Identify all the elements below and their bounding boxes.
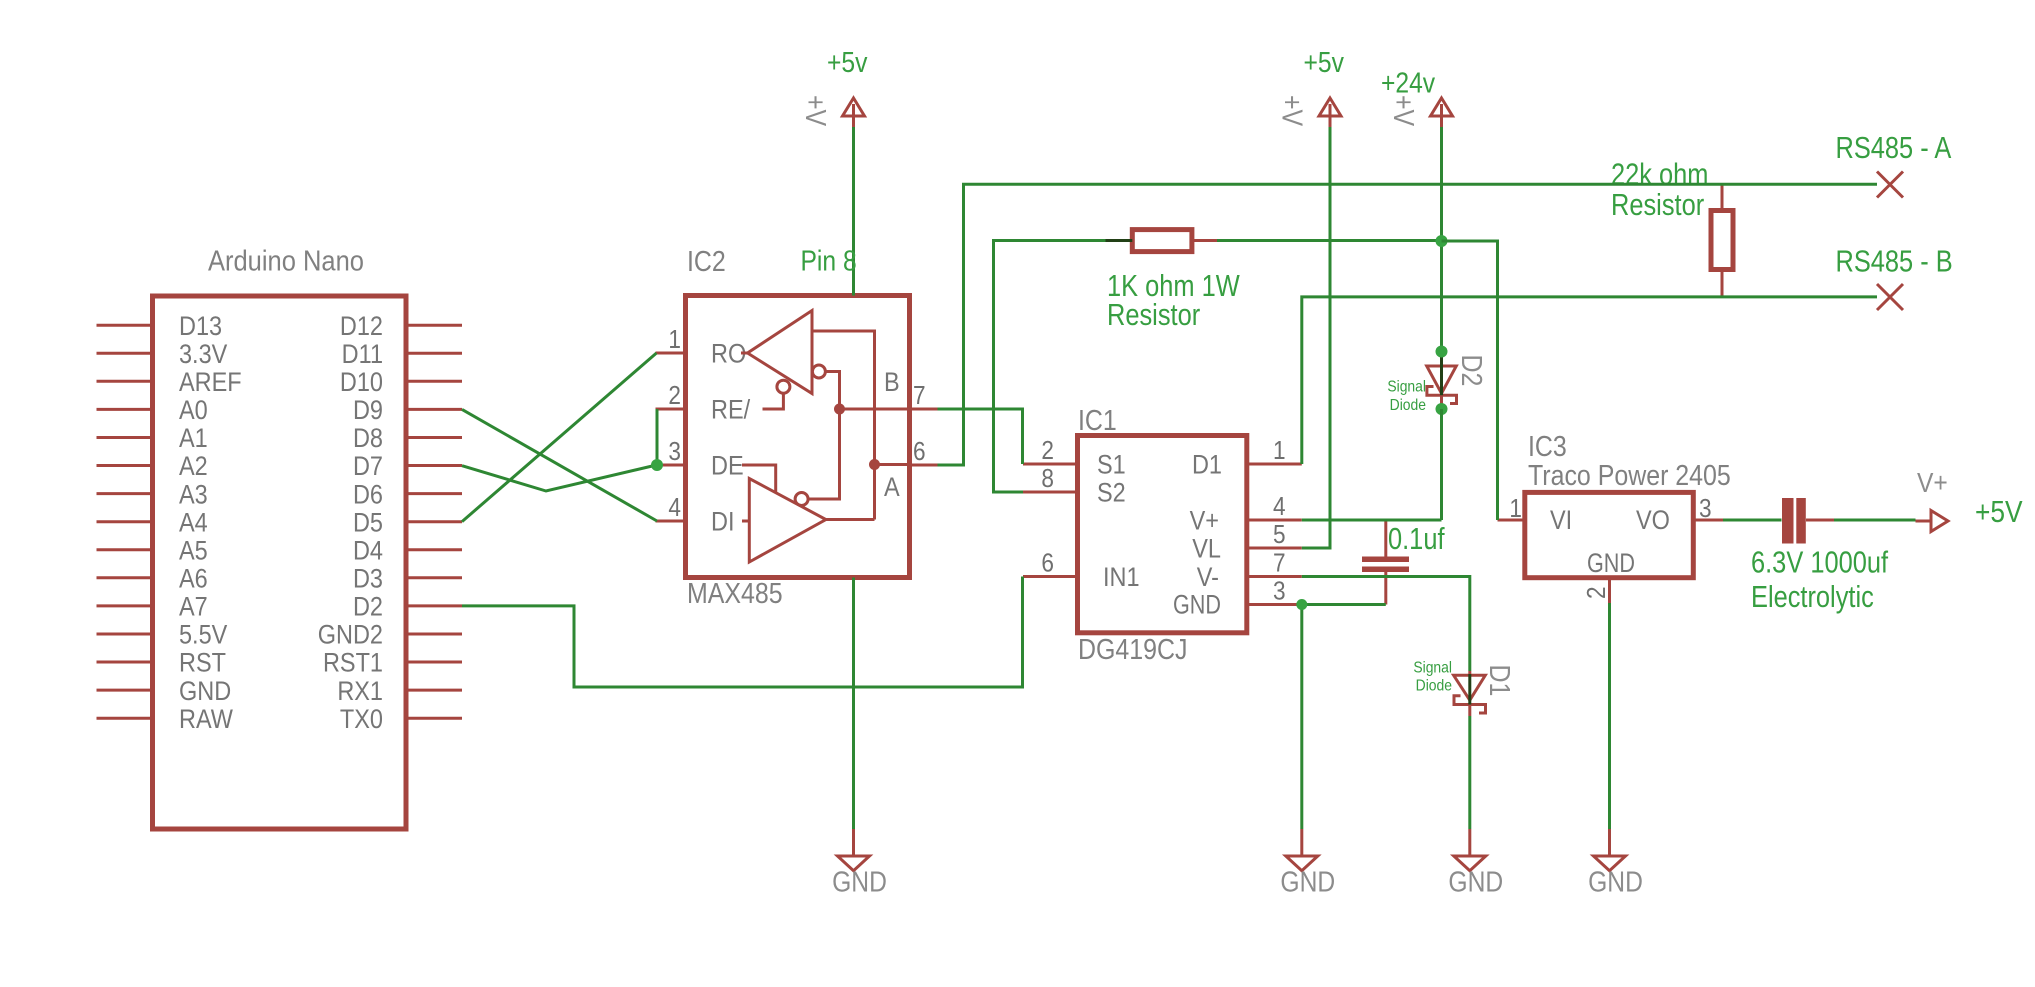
svg-text:DG419CJ: DG419CJ: [1078, 633, 1187, 665]
svg-text:GND: GND: [1280, 866, 1335, 898]
pin A5 (Arduino left): [97, 548, 153, 551]
svg-text:2: 2: [1041, 437, 1054, 466]
pin D13 (Arduino left): [97, 324, 153, 327]
svg-text:1: 1: [1509, 495, 1522, 524]
pin 6 A (IC2): [910, 464, 938, 467]
wire overlap through D2: [1440, 354, 1443, 395]
svg-text:7: 7: [913, 382, 926, 411]
svg-text:4: 4: [668, 494, 681, 523]
svg-text:RS485 - B: RS485 - B: [1836, 244, 1953, 279]
pin 6 (IC1 left): [1023, 575, 1078, 578]
wire +5v rail into IC2: [852, 127, 855, 296]
wire IC1 D1 pin to RS485-B net: [1302, 297, 1877, 464]
svg-text:D12: D12: [340, 311, 383, 341]
pin 1 RO (IC2): [656, 352, 686, 355]
capacitor 0.1uf: [1362, 557, 1409, 563]
svg-text:3.3V: 3.3V: [179, 340, 227, 370]
svg-text:D3: D3: [353, 564, 383, 594]
pin 5.5V (Arduino left): [97, 633, 153, 636]
bubble receiver enable right: [812, 365, 825, 378]
wire bubble to B-node drop: [808, 372, 839, 500]
wire +24v node to IC3 VI: [1442, 241, 1498, 520]
svg-text:D2: D2: [353, 592, 383, 622]
pin A3 (Arduino left): [97, 492, 153, 495]
svg-text:RO: RO: [711, 339, 746, 369]
wire A row inside: [875, 463, 910, 466]
ground symbol: [852, 829, 855, 856]
pin GND2 (Arduino right): [406, 633, 462, 636]
svg-text:1: 1: [668, 326, 681, 355]
svg-text:+V: +V: [1388, 95, 1420, 126]
pin 5 (IC1 right): [1247, 547, 1302, 550]
wire DE link to driver enable: [742, 465, 776, 493]
svg-text:AREF: AREF: [179, 368, 242, 398]
svg-text:GND: GND: [1448, 866, 1503, 898]
wire +24v rail upper: [1440, 127, 1443, 352]
wire D2 to IN1: [462, 577, 1023, 688]
svg-text:6: 6: [913, 438, 926, 467]
svg-text:A7: A7: [179, 592, 208, 622]
svg-text:D11: D11: [342, 340, 383, 370]
wire D9 to DI: [462, 409, 657, 521]
pin TX0 (Arduino right): [406, 717, 462, 720]
wire D7 to DE: [462, 465, 657, 491]
power V+ arrow +5V output: [1931, 511, 1948, 532]
pin 4 DI (IC2): [656, 520, 686, 523]
pin A0 (Arduino left): [97, 408, 153, 411]
svg-text:D4: D4: [353, 536, 383, 566]
pin D9 (Arduino right): [406, 408, 462, 411]
pin 1 VI (IC3): [1498, 519, 1525, 522]
wire 1K resistor to +24v rail: [1217, 239, 1442, 242]
svg-text:GND: GND: [179, 676, 231, 706]
svg-text:GND2: GND2: [318, 620, 383, 650]
svg-text:D6: D6: [353, 480, 383, 510]
svg-text:D7: D7: [353, 452, 383, 482]
svg-text:D8: D8: [353, 424, 383, 454]
svg-text:Signal: Signal: [1387, 378, 1426, 396]
wire RE/ link to bubble: [763, 393, 784, 409]
junction D2 cathode: [1436, 403, 1448, 415]
bubble receiver enable bottom: [777, 380, 790, 393]
svg-text:D13: D13: [179, 311, 222, 341]
terminal X RS485-B: [1877, 284, 1903, 310]
pin 2 GND (IC3): [1608, 578, 1611, 603]
svg-text:Traco Power 2405: Traco Power 2405: [1528, 459, 1731, 491]
module Arduino Nano: [153, 296, 407, 829]
svg-text:A0: A0: [179, 396, 208, 426]
pin A1 (Arduino left): [97, 436, 153, 439]
pin RAW (Arduino left): [97, 717, 153, 720]
svg-text:+5V: +5V: [1975, 495, 2023, 529]
diode D2 signal diode: [1427, 366, 1457, 393]
pin AREF (Arduino left): [97, 380, 153, 383]
pin RST1 (Arduino right): [406, 661, 462, 664]
junction +24v / 1K node: [1436, 235, 1448, 247]
svg-text:D5: D5: [353, 508, 383, 538]
wire D1 diode to GND: [1468, 716, 1471, 829]
svg-text:B: B: [884, 368, 900, 398]
wire DI tick: [742, 520, 749, 523]
wire B row inside: [840, 408, 910, 411]
pin D12 (Arduino right): [406, 324, 462, 327]
pin RX1 (Arduino right): [406, 689, 462, 692]
svg-text:VI: VI: [1550, 506, 1572, 536]
pin 2 RE/ (IC2): [656, 408, 686, 411]
bubble driver enable: [795, 493, 808, 506]
svg-text:IN1: IN1: [1103, 563, 1140, 593]
svg-text:GND: GND: [1587, 549, 1635, 579]
svg-text:+5v: +5v: [1304, 46, 1345, 78]
power V+ symbol +5v: [1319, 98, 1341, 116]
pin D11 (Arduino right): [406, 352, 462, 355]
junction D2 anode: [1436, 346, 1448, 358]
svg-text:2: 2: [1583, 586, 1612, 599]
wire overlap through D1: [1468, 674, 1471, 705]
svg-text:7: 7: [1273, 549, 1286, 578]
pin A2 (Arduino left): [97, 464, 153, 467]
pin 3 DE (IC2): [656, 464, 686, 467]
svg-text:Arduino Nano: Arduino Nano: [208, 244, 364, 277]
svg-text:2: 2: [668, 382, 681, 411]
svg-text:D2: D2: [1456, 355, 1488, 387]
svg-text:Diode: Diode: [1416, 677, 1452, 695]
power V+ symbol +24v: [1431, 98, 1453, 116]
svg-text:A2: A2: [179, 452, 208, 482]
pin 3.3V (Arduino left): [97, 352, 153, 355]
pin D7 (Arduino right): [406, 464, 462, 467]
pin D4 (Arduino right): [406, 548, 462, 551]
svg-text:RE/: RE/: [711, 395, 751, 425]
svg-text:8: 8: [1041, 465, 1054, 494]
svg-text:IC3: IC3: [1528, 430, 1567, 462]
wire S2 to 1K resistor: [994, 241, 1106, 493]
pin 7 B (IC2): [910, 408, 938, 411]
svg-text:RX1: RX1: [337, 676, 383, 706]
svg-text:IC2: IC2: [687, 245, 726, 277]
wire B pin7 to S1: [938, 409, 1023, 464]
op IC1 DG419CJ body: [1078, 436, 1247, 633]
svg-text:MAX485: MAX485: [687, 577, 783, 609]
wire IC3 GND to ground: [1608, 603, 1611, 829]
op IC3 Traco Power 2405 body: [1525, 492, 1694, 577]
svg-text:V-: V-: [1197, 563, 1219, 593]
svg-text:V+: V+: [1917, 467, 1948, 499]
wire D2 cathode to V+ row: [1440, 409, 1443, 520]
wire electrolytic to +5V arrow: [1834, 519, 1916, 522]
pin A4 (Arduino left): [97, 520, 153, 523]
op IC2 MAX485 body: [686, 296, 910, 578]
pin 3 (IC1 right): [1247, 603, 1302, 606]
svg-text:A1: A1: [179, 424, 208, 454]
svg-text:RAW: RAW: [179, 704, 233, 734]
wire RE/ to DE junction: [656, 409, 659, 465]
wire D5 to RO: [462, 353, 657, 522]
svg-text:+5v: +5v: [827, 46, 868, 78]
resistor 22k ohm: [1711, 211, 1733, 270]
wire A pin6 to RS485-A net: [938, 184, 1878, 465]
wire GND pin3 net: [1302, 605, 1386, 830]
wire receiver input to A-node: [812, 331, 875, 520]
junction GND pin3: [1296, 599, 1307, 610]
svg-text:GND: GND: [832, 866, 887, 898]
power V+ symbol +5v: [843, 98, 865, 116]
pin D2 (Arduino right): [406, 604, 462, 607]
ground symbol: [1608, 829, 1611, 856]
pin 1 (IC1 right): [1247, 463, 1302, 466]
ground symbol: [1468, 829, 1471, 856]
svg-text:4: 4: [1273, 493, 1286, 522]
svg-text:+24v: +24v: [1381, 67, 1436, 99]
ground symbol: [1300, 829, 1303, 856]
svg-text:Resistor: Resistor: [1611, 188, 1704, 223]
svg-text:GND: GND: [1588, 866, 1643, 898]
pin 4 (IC1 right): [1247, 519, 1302, 522]
pin A7 (Arduino left): [97, 604, 153, 607]
svg-text:RST: RST: [179, 648, 226, 678]
svg-text:IC1: IC1: [1078, 404, 1117, 436]
wire RO tick: [741, 352, 748, 355]
pin 3 VO (IC3): [1693, 519, 1723, 522]
svg-text:RS485 - A: RS485 - A: [1836, 131, 1952, 166]
svg-text:VO: VO: [1636, 506, 1670, 536]
wire +5v rail to VL: [1302, 127, 1330, 548]
diode D1 signal diode: [1454, 675, 1486, 700]
svg-text:TX0: TX0: [340, 704, 383, 734]
receiver buffer (IC2, points left): [748, 311, 813, 394]
svg-text:D9: D9: [353, 396, 383, 426]
pin 7 (IC1 right): [1247, 575, 1302, 578]
capacitor 6.3V 1000uf electrolytic: [1782, 498, 1794, 544]
svg-text:A4: A4: [179, 508, 208, 538]
wire IC2 bottom to GND: [852, 578, 855, 830]
svg-text:S1: S1: [1097, 450, 1126, 480]
pin D5 (Arduino right): [406, 520, 462, 523]
junction B-node: [834, 404, 845, 415]
junction A-node: [869, 459, 880, 470]
wire dark overlap at 1K left lead: [1106, 239, 1133, 242]
svg-text:+V: +V: [1276, 95, 1308, 126]
svg-text:6.3V 1000uf: 6.3V 1000uf: [1751, 545, 1888, 580]
terminal X RS485-A: [1877, 172, 1903, 198]
svg-text:D1: D1: [1484, 665, 1516, 697]
svg-text:1: 1: [1273, 437, 1286, 466]
svg-text:Pin 8: Pin 8: [801, 245, 857, 277]
svg-text:V+: V+: [1190, 506, 1219, 536]
pin GND (Arduino left): [97, 689, 153, 692]
pin 2 (IC1 left): [1023, 463, 1078, 466]
svg-text:DI: DI: [711, 507, 734, 537]
svg-text:0.1uf: 0.1uf: [1388, 522, 1445, 557]
svg-text:Electrolytic: Electrolytic: [1751, 580, 1874, 615]
svg-text:A6: A6: [179, 564, 208, 594]
pin D10 (Arduino right): [406, 380, 462, 383]
junction DE node: [651, 459, 663, 471]
svg-text:S2: S2: [1097, 478, 1126, 508]
wire VO to electrolytic: [1723, 519, 1782, 522]
svg-text:VL: VL: [1192, 534, 1221, 564]
wire driver output: [826, 518, 875, 521]
resistor 1K ohm 1W: [1132, 230, 1192, 252]
svg-text:5: 5: [1273, 521, 1286, 550]
svg-text:DE: DE: [711, 451, 744, 481]
driver buffer (IC2, points right): [749, 479, 826, 563]
svg-text:3: 3: [1273, 577, 1286, 606]
svg-text:+V: +V: [800, 95, 832, 126]
pin D6 (Arduino right): [406, 492, 462, 495]
svg-text:A: A: [884, 473, 900, 503]
svg-text:3: 3: [668, 438, 681, 467]
pin 8 (IC1 left): [1023, 491, 1078, 494]
svg-text:A3: A3: [179, 480, 208, 510]
pin D8 (Arduino right): [406, 436, 462, 439]
svg-text:GND: GND: [1173, 590, 1221, 620]
pin A6 (Arduino left): [97, 576, 153, 579]
wire V- to D1 diode: [1302, 577, 1470, 672]
svg-text:5.5V: 5.5V: [179, 620, 227, 650]
svg-text:6: 6: [1041, 549, 1054, 578]
svg-text:D10: D10: [340, 368, 383, 398]
svg-text:A5: A5: [179, 536, 208, 566]
svg-text:D1: D1: [1192, 450, 1222, 480]
svg-text:Diode: Diode: [1390, 396, 1426, 414]
pin D3 (Arduino right): [406, 576, 462, 579]
wire V+ row (IC1 pin4): [1302, 519, 1442, 522]
svg-text:Signal: Signal: [1413, 659, 1452, 677]
svg-text:RST1: RST1: [323, 648, 383, 678]
svg-text:3: 3: [1699, 495, 1712, 524]
pin RST (Arduino left): [97, 661, 153, 664]
svg-text:Resistor: Resistor: [1107, 298, 1200, 333]
